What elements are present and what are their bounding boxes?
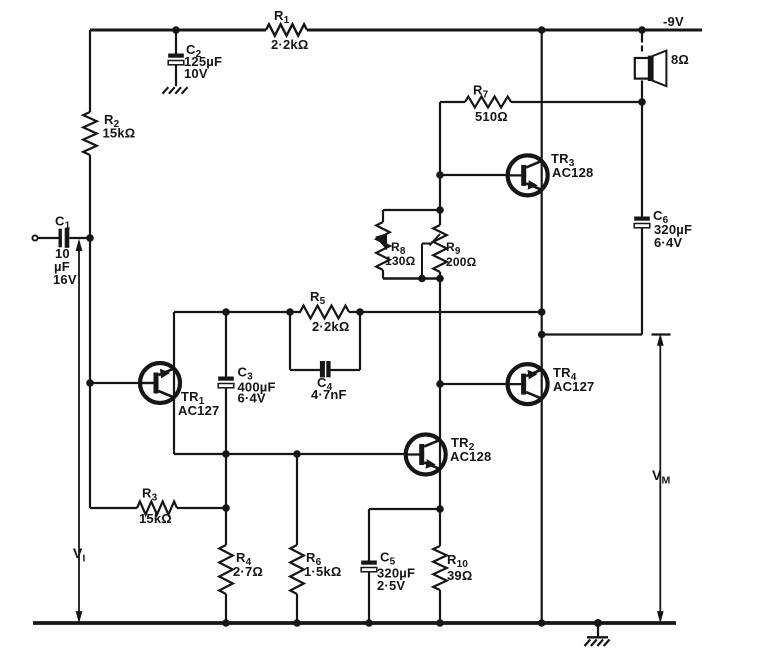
svg-text:15kΩ: 15kΩ [103,126,136,141]
svg-text:-9V: -9V [663,14,684,29]
svg-text:130Ω: 130Ω [385,254,416,268]
svg-text:6·4V: 6·4V [654,235,682,250]
svg-text:200Ω: 200Ω [446,255,477,269]
svg-text:AC128: AC128 [552,165,593,180]
svg-text:8Ω: 8Ω [671,52,689,67]
svg-text:1·5kΩ: 1·5kΩ [304,564,341,579]
svg-text:AC128: AC128 [450,449,491,464]
svg-text:39Ω: 39Ω [447,568,472,583]
svg-text:2·5V: 2·5V [377,578,405,593]
svg-text:2·2kΩ: 2·2kΩ [312,319,349,334]
svg-text:2·2kΩ: 2·2kΩ [271,37,308,52]
svg-text:AC127: AC127 [178,403,219,418]
svg-text:AC127: AC127 [553,379,594,394]
svg-text:10V: 10V [184,66,208,81]
svg-text:4·7nF: 4·7nF [311,387,347,402]
svg-text:6·4V: 6·4V [238,391,266,406]
svg-text:2·7Ω: 2·7Ω [233,564,263,579]
svg-text:16V: 16V [53,272,77,287]
svg-text:510Ω: 510Ω [475,109,508,124]
svg-text:15kΩ: 15kΩ [139,511,172,526]
